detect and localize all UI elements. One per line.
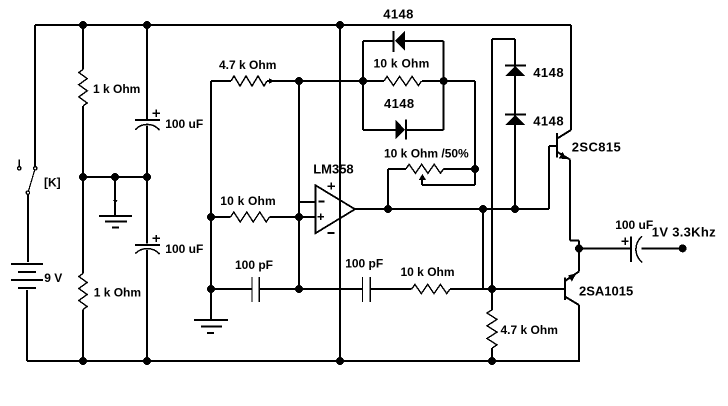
svg-text:100 uF: 100 uF (165, 117, 203, 131)
svg-text:4148: 4148 (384, 96, 415, 111)
svg-text:1 k Ohm: 1 k Ohm (94, 286, 141, 300)
svg-text:100 uF: 100 uF (615, 218, 653, 232)
svg-text:1 k Ohm: 1 k Ohm (93, 82, 140, 96)
svg-text:2SC815: 2SC815 (572, 139, 621, 154)
svg-text:[K]: [K] (44, 175, 61, 189)
svg-text:10 k Ohm: 10 k Ohm (401, 265, 455, 279)
svg-text:100 pF: 100 pF (345, 256, 383, 270)
svg-text:10 k Ohm: 10 k Ohm (220, 194, 276, 208)
svg-text:4148: 4148 (383, 6, 414, 21)
svg-text:100 pF: 100 pF (235, 258, 273, 272)
svg-text:100 uF: 100 uF (165, 242, 203, 256)
svg-text:4.7 k Ohm: 4.7 k Ohm (501, 323, 558, 337)
svg-text:10 k Ohm: 10 k Ohm (374, 57, 430, 71)
svg-text:9 V: 9 V (44, 271, 62, 285)
svg-text:4.7 k Ohm: 4.7 k Ohm (219, 58, 276, 72)
svg-text:4148: 4148 (533, 114, 564, 129)
svg-text:1V 3.3Khz: 1V 3.3Khz (652, 225, 716, 240)
svg-text:2SA1015: 2SA1015 (579, 284, 633, 299)
svg-text:10 k Ohm /50%: 10 k Ohm /50% (384, 147, 469, 161)
svg-text:4148: 4148 (533, 65, 564, 80)
svg-text:LM358: LM358 (313, 162, 353, 177)
